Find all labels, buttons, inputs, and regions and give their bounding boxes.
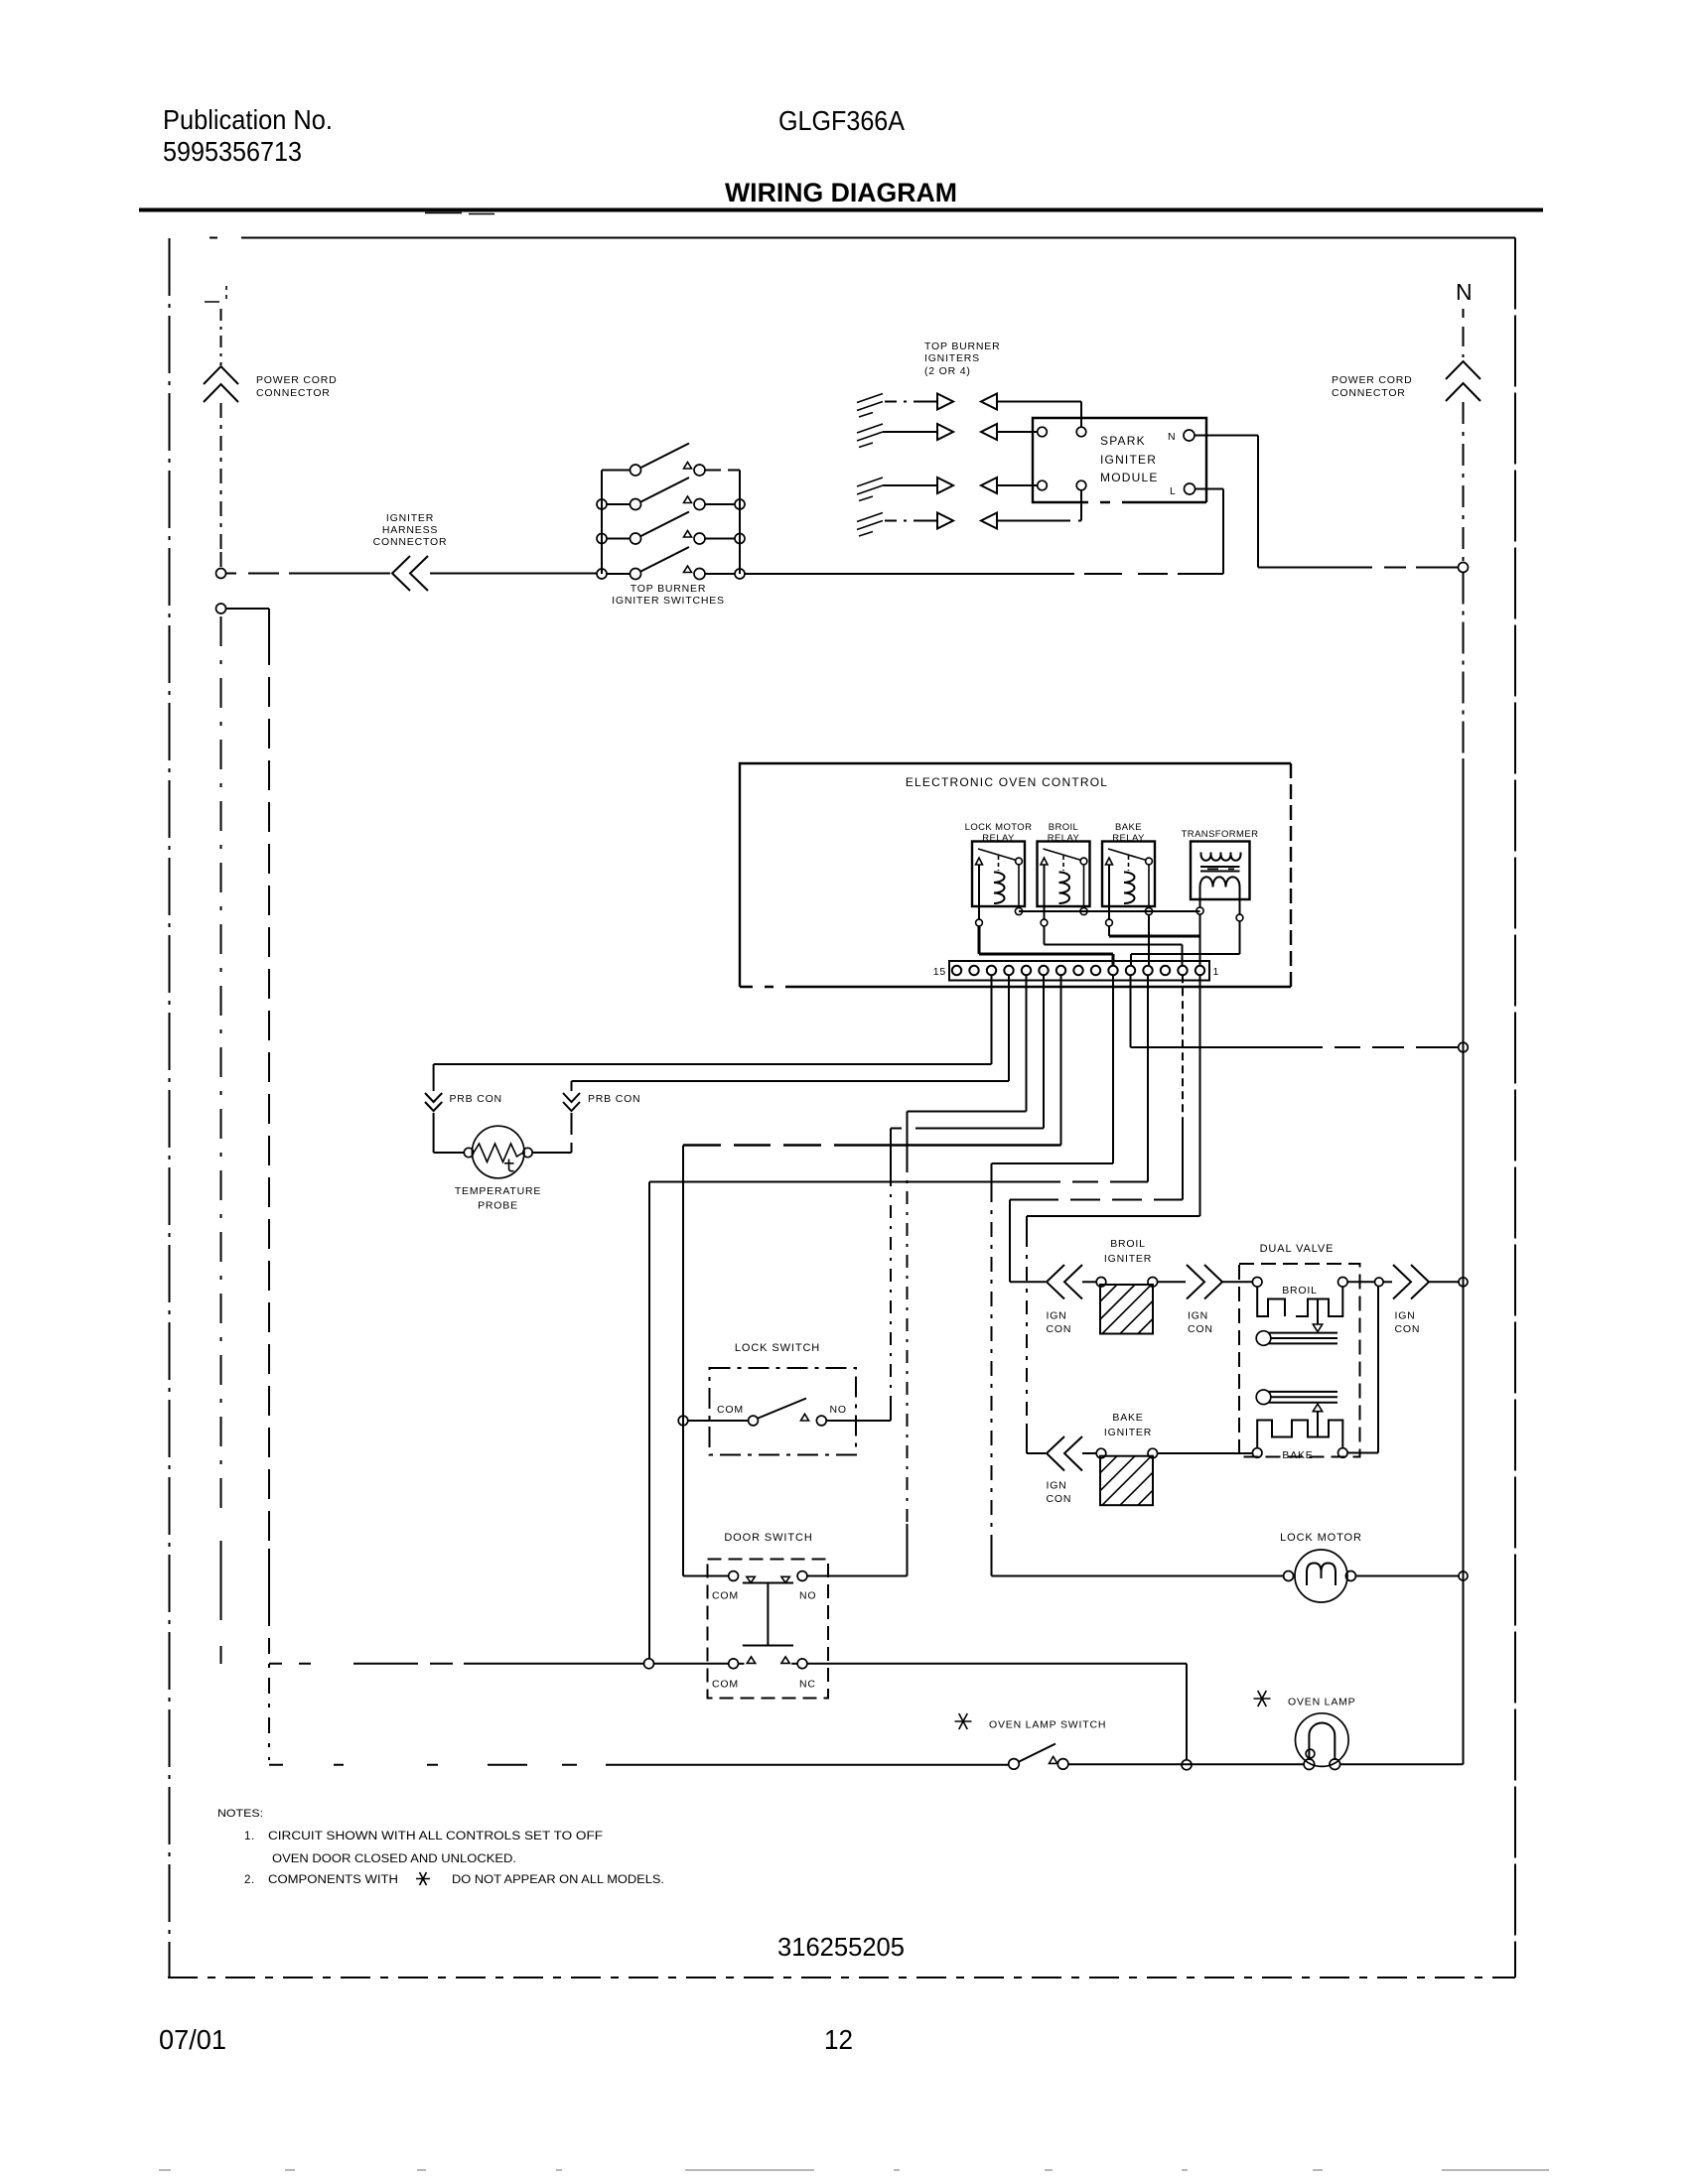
top burner igniter row 3 (857, 478, 1038, 501)
wire terminal 2 down-left (dashed upper) (1182, 975, 1184, 1120)
transformer T1 (1182, 829, 1259, 921)
dual valve bake solenoid winding (1257, 1421, 1342, 1448)
svg-text:ELECTRONIC OVEN CONTROL: ELECTRONIC OVEN CONTROL (906, 775, 1108, 789)
dual valve bake gas valve (1256, 1390, 1271, 1405)
svg-text:5995356713: 5995356713 (163, 136, 302, 167)
node L2 terminal (216, 604, 226, 614)
svg-text:OVEN LAMP SWITCH: OVEN LAMP SWITCH (989, 1719, 1106, 1731)
probe connector PRB CON 1 (433, 1064, 435, 1091)
wire terminal 13 to probe connector 1 (434, 975, 992, 1064)
svg-text:CON: CON (1188, 1323, 1213, 1335)
svg-text:DUAL VALVE: DUAL VALVE (1260, 1243, 1335, 1255)
svg-text:DO NOT APPEAR ON ALL MODELS.: DO NOT APPEAR ON ALL MODELS. (452, 1874, 664, 1886)
oven lamp DS1 (1296, 1713, 1349, 1767)
svg-text:WIRING DIAGRAM: WIRING DIAGRAM (725, 178, 957, 207)
lock switch S1 box (dash-dot) (710, 1368, 857, 1455)
svg-text:LOCK MOTOR: LOCK MOTOR (1280, 1532, 1362, 1544)
svg-text:CONNECTOR: CONNECTOR (373, 536, 448, 548)
switch row 3 (597, 534, 607, 544)
lock motor M1 (1295, 1550, 1347, 1602)
svg-text:SPARK: SPARK (1100, 434, 1146, 448)
wire broil igniter feed riser (1009, 1200, 1011, 1283)
svg-text:CONNECTOR: CONNECTOR (1332, 387, 1406, 399)
node junction T5/N (1459, 1042, 1469, 1052)
switch bank right rail (739, 471, 741, 575)
wire main top line from L1 (226, 573, 391, 575)
wire lock switch COM riser (682, 1146, 684, 1576)
ign con connector (bake left) (1047, 1436, 1082, 1471)
svg-text:TRANSFORMER: TRANSFORMER (1182, 829, 1259, 840)
terminal strip pins 15..1 (952, 966, 1204, 975)
page border right (long dash) (1514, 238, 1516, 1979)
wire broil valve to junction (1347, 1281, 1374, 1283)
wire relay contact bus (1019, 910, 1200, 912)
svg-text:CONNECTOR: CONNECTOR (256, 387, 331, 399)
svg-text:TOP BURNER: TOP BURNER (924, 341, 1000, 352)
wire lower horizontal bus (left, long dashes) (269, 1663, 644, 1665)
dual valve broil gas valve (1256, 1331, 1271, 1346)
svg-text:POWER CORD: POWER CORD (256, 374, 338, 386)
svg-text:NC: NC (799, 1679, 816, 1691)
svg-text:N: N (1456, 279, 1473, 305)
svg-text:OVEN LAMP: OVEN LAMP (1288, 1697, 1355, 1708)
svg-text:15: 15 (933, 966, 946, 978)
lock switch contacts (688, 1420, 749, 1422)
svg-text:TOP BURNER: TOP BURNER (631, 583, 706, 595)
svg-text:PRB CON: PRB CON (450, 1093, 502, 1105)
spark igniter module U1 (1033, 418, 1206, 502)
switch row 4 (on main line) (597, 569, 607, 579)
top burner igniter row 2 (857, 424, 1038, 448)
door switch lower pole (COM-NC open) (729, 1659, 739, 1669)
svg-text:MODULE: MODULE (1100, 471, 1159, 484)
node valve output junction (1375, 1278, 1384, 1287)
wire terminal 10 down-left (891, 975, 1044, 1128)
svg-text:PRB CON: PRB CON (588, 1093, 640, 1105)
wire lock motor to N bus (1355, 1575, 1458, 1577)
svg-text:NO: NO (830, 1404, 847, 1416)
wire bake relay coil to terminal 1 (1109, 935, 1200, 938)
wire lamp to N bus corner (1340, 1763, 1464, 1765)
ign con connector (broil right) (1158, 1281, 1186, 1283)
svg-text:(2 OR 4): (2 OR 4) (924, 365, 971, 377)
igniter harness connector (392, 556, 428, 591)
wire bake igniter feed riser (1026, 1216, 1028, 1233)
wire N rail middle (long dash) (1463, 573, 1465, 759)
node junction lock motor/N (1459, 1571, 1468, 1580)
svg-text:OVEN DOOR CLOSED AND UNLOCKED.: OVEN DOOR CLOSED AND UNLOCKED. (272, 1853, 516, 1865)
svg-text:CON: CON (1047, 1493, 1072, 1505)
top burner igniter switches (597, 444, 745, 580)
wire terminal 12 to probe connector 2 (572, 975, 1010, 1081)
wire valve output to N bus (1429, 1281, 1459, 1283)
wire door switch lower COM riser (648, 1182, 650, 1659)
svg-text:IGNITER: IGNITER (1104, 1253, 1152, 1265)
net label L (degraded scan marks) (205, 286, 226, 302)
svg-text:IGN: IGN (1047, 1310, 1067, 1322)
wire terminal 5 to N bus (1131, 975, 1459, 1047)
wire terminal 11 down-left (908, 975, 1027, 1111)
wire bottom lamp line (left sparse dashes) (269, 1764, 1009, 1766)
relay K1 lock motor relay (965, 822, 1033, 926)
wire door switch NO riser (907, 1112, 909, 1160)
wire L rail continuation (sparse dash-dot) (220, 616, 222, 1517)
relay K2 broil relay (1038, 822, 1090, 926)
svg-text:BAKE: BAKE (1112, 1412, 1143, 1424)
node junction lock switch COM (678, 1416, 688, 1426)
wire bake valve to broil output junction (1347, 1287, 1378, 1453)
svg-text:IGNITER SWITCHES: IGNITER SWITCHES (612, 595, 725, 607)
svg-text:07/01: 07/01 (159, 2024, 226, 2055)
bake igniter E2 (hatched) (1082, 1452, 1096, 1454)
svg-text:BROIL: BROIL (1282, 1285, 1318, 1297)
wire main line to L terminal of module (745, 489, 1223, 575)
wire lock motor feed (992, 1575, 1284, 1577)
wire N rail lower (solid main right bus) (1463, 758, 1465, 1764)
node L1 terminal (216, 569, 226, 579)
svg-text:L: L (1170, 485, 1177, 497)
svg-text:COM: COM (712, 1590, 739, 1602)
oven lamp asterisk (1254, 1691, 1271, 1706)
wire terminal 6 down-left (992, 975, 1114, 1163)
wire broil relay coil to terminal 2 (1045, 926, 1183, 965)
svg-text:IGNITER: IGNITER (1100, 453, 1157, 467)
svg-text:12: 12 (824, 2024, 853, 2055)
svg-text:LOCK SWITCH: LOCK SWITCH (735, 1342, 820, 1354)
svg-text:COM: COM (717, 1404, 744, 1416)
temperature probe RT1 (472, 1126, 524, 1178)
relay K3 bake relay (1102, 822, 1155, 926)
svg-text:HARNESS: HARNESS (382, 524, 438, 536)
module spark output terminals (1038, 427, 1048, 437)
switch row 2 (597, 499, 607, 509)
svg-text:BROIL: BROIL (1110, 1238, 1146, 1250)
node junction at lamp line (1182, 1760, 1192, 1770)
page border left (dash-dot) (169, 238, 171, 1978)
wire to broil igniter connector (1010, 1281, 1046, 1283)
power cord connector (right, line N) (1463, 309, 1465, 318)
wire bake igniter to dual valve bake (1158, 1452, 1253, 1454)
svg-text:1: 1 (1213, 966, 1220, 978)
wire N terminal to right junction (1195, 436, 1459, 568)
door switch upper pole (COM-NO closed) (683, 1575, 729, 1577)
svg-text:IGNITER: IGNITER (1104, 1427, 1152, 1438)
wire NC to lamp drop (807, 1664, 1187, 1760)
dual valve broil solenoid winding (1257, 1287, 1342, 1316)
svg-text:IGN: IGN (1047, 1480, 1067, 1492)
dual valve box (dashed) (1239, 1264, 1360, 1457)
dual valve broil terminals (1252, 1278, 1262, 1288)
svg-text:IGNITER: IGNITER (386, 512, 434, 524)
wire terminal 4 down-left (649, 975, 1148, 1181)
svg-text:1.: 1. (244, 1831, 255, 1843)
wire terminal 1 down-left (1027, 975, 1200, 1216)
top burner igniter row 4 (857, 490, 1081, 536)
svg-text:2.: 2. (244, 1874, 255, 1886)
wire switch to lamp (1068, 1763, 1304, 1765)
ign con connector (broil left) (1047, 1265, 1082, 1299)
svg-text:BAKE: BAKE (1282, 1449, 1313, 1461)
svg-text:CON: CON (1047, 1323, 1072, 1335)
svg-text:CON: CON (1395, 1323, 1421, 1335)
oven lamp switch S3 (1009, 1759, 1020, 1770)
scan artifact bottom dotted line (159, 2169, 1549, 2171)
svg-text:BAKE: BAKE (1115, 822, 1142, 833)
wire lock motor relay coil to terminal 6 (979, 926, 1113, 965)
top burner igniter row 1 (857, 394, 1081, 428)
page border top (210, 237, 1515, 239)
wire L2 to lower-left rail (226, 609, 270, 635)
node N junction at main line (1459, 563, 1469, 573)
node junction valve/N (1459, 1278, 1468, 1287)
wire bake relay contact to terminal 4 (1148, 915, 1150, 966)
wire terminal 9 down-left (1060, 975, 1062, 1145)
svg-text:COM: COM (712, 1679, 739, 1691)
svg-text:N: N (1168, 431, 1176, 443)
switch bank left rail (601, 471, 603, 575)
broil igniter E1 (hatched) (1082, 1281, 1096, 1283)
power cord connector (left, line L) (220, 309, 222, 365)
electronic oven control box (740, 763, 1291, 987)
wire connector to dual valve broil (1222, 1281, 1252, 1283)
switch row 1 (602, 444, 740, 471)
oven lamp switch asterisk (955, 1713, 972, 1729)
svg-text:CIRCUIT SHOWN WITH ALL CONTROL: CIRCUIT SHOWN WITH ALL CONTROLS SET TO O… (268, 1831, 603, 1843)
terminal strip TB1 (949, 961, 1209, 981)
svg-text:PROBE: PROBE (478, 1200, 518, 1212)
probe connector PRB CON 2 (571, 1081, 573, 1091)
page border bottom (dashed) (168, 1977, 1515, 1979)
wire lock switch NO riser (890, 1129, 892, 1174)
svg-text:POWER CORD: POWER CORD (1332, 374, 1413, 386)
wire lower-left rail (dash-dot drop to lamp line) (268, 635, 270, 1549)
svg-text:NOTES:: NOTES: (217, 1808, 263, 1820)
wire lock motor feed riser (991, 1163, 993, 1187)
wire N rail upper (dash-dot) (1463, 402, 1465, 562)
title underline rule (139, 208, 1543, 212)
door switch S2 box (dashed) (708, 1560, 829, 1699)
svg-text:TEMPERATURE: TEMPERATURE (455, 1185, 541, 1197)
wire transformer secondary to terminal 5 (1131, 921, 1240, 965)
svg-text:COMPONENTS WITH: COMPONENTS WITH (268, 1874, 398, 1886)
wire to top burner switches (430, 573, 597, 575)
node junction at lower bus (644, 1659, 654, 1669)
svg-text:DOOR SWITCH: DOOR SWITCH (724, 1532, 812, 1544)
svg-text:IGN: IGN (1188, 1310, 1208, 1322)
svg-text:NO: NO (799, 1590, 816, 1602)
svg-text:IGNITERS: IGNITERS (924, 352, 980, 364)
svg-text:LOCK MOTOR: LOCK MOTOR (965, 822, 1033, 833)
dual valve bake terminals (1252, 1448, 1262, 1458)
svg-text:316255205: 316255205 (777, 1932, 905, 1962)
svg-text:BROIL: BROIL (1049, 822, 1079, 833)
ign con connector (valve output) (1383, 1281, 1392, 1283)
svg-text:GLGF366A: GLGF366A (778, 105, 905, 136)
svg-text:Publication No.: Publication No. (163, 104, 333, 135)
svg-text:IGN: IGN (1395, 1310, 1416, 1322)
wire to bake igniter connector (1027, 1452, 1046, 1454)
